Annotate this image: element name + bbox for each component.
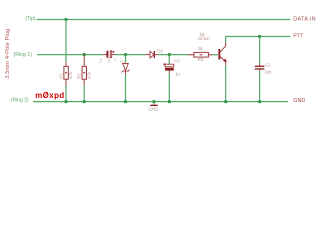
wire TIP drop to R1 — [65, 20, 67, 62]
svg-text:47k: 47k — [86, 71, 91, 79]
transistor Q1 — [198, 32, 226, 65]
wire RING1 segment C2 to D2 — [115, 54, 146, 56]
pin label (Ring 1) — [14, 52, 33, 58]
svg-text:R2: R2 — [77, 73, 82, 79]
svg-text:PTT: PTT — [293, 34, 304, 40]
svg-text:2: 2 — [125, 62, 127, 66]
svg-text:R1: R1 — [58, 73, 63, 79]
svg-text:(Ring 1): (Ring 1) — [14, 52, 33, 58]
svg-text:D2: D2 — [157, 49, 163, 54]
wire junction to zener — [125, 55, 127, 64]
svg-text:(Tip): (Tip) — [25, 16, 35, 22]
svg-text:GND: GND — [149, 107, 158, 112]
diode D2 — [146, 49, 164, 59]
svg-text:1u: 1u — [175, 72, 180, 77]
node rail junction emitter — [224, 100, 227, 103]
wire junction to C3 — [168, 55, 170, 65]
wire R2 to GND rail — [83, 86, 85, 102]
svg-text:3.5mm 4-Pole Plug: 3.5mm 4-Pole Plug — [5, 29, 11, 79]
wire PTT junction to C1 — [259, 37, 261, 64]
node PTT-C1 junction — [258, 35, 261, 38]
ground symbol — [149, 102, 158, 112]
node zener junction — [124, 53, 127, 56]
wire TIP net horizontal — [37, 19, 291, 21]
svg-text:C1: C1 — [265, 62, 271, 67]
svg-text:GND: GND — [293, 98, 305, 104]
svg-text:mØxpd: mØxpd — [35, 91, 64, 100]
node C3 junction — [168, 53, 171, 56]
wire Q1 collector to PTT — [226, 37, 291, 43]
wire R3 to Q1 base — [213, 54, 218, 56]
net label DATA IN — [293, 17, 316, 23]
wire C1 to GND rail — [259, 71, 261, 101]
svg-text:DATA IN: DATA IN — [293, 17, 316, 23]
connector J1 vertical label — [5, 29, 11, 79]
svg-text:C2: C2 — [99, 58, 103, 62]
capacitor C2 — [99, 51, 117, 63]
svg-text:(Ring 2): (Ring 2) — [11, 97, 29, 103]
wire Q1 emitter to GND rail — [225, 65, 227, 102]
node rail junction zener — [124, 100, 127, 103]
svg-text:R3: R3 — [198, 57, 204, 62]
capacitor C1 — [255, 62, 272, 74]
node rail junction C3 — [168, 100, 171, 103]
logo mØxpd — [35, 91, 64, 100]
net label PTT — [293, 34, 304, 40]
resistor R3 — [188, 46, 212, 62]
wire GND rail — [33, 101, 288, 103]
node rail junction C1 — [258, 100, 261, 103]
wire C3 to GND rail — [168, 73, 170, 101]
svg-text:C3: C3 — [174, 58, 180, 63]
resistor R2 — [77, 55, 92, 86]
svg-text:Z1: Z1 — [120, 59, 124, 63]
node RING1-R2 junction — [83, 53, 86, 56]
capacitor C3 — [163, 58, 180, 76]
svg-text:10n: 10n — [264, 70, 272, 75]
pin label (Ring 2) — [11, 97, 29, 103]
node TIP junction — [64, 18, 67, 21]
node rail junction R1 — [64, 100, 67, 103]
wire R1 to GND rail — [65, 86, 67, 102]
svg-text:BC547: BC547 — [198, 36, 211, 41]
svg-text:1k: 1k — [198, 46, 203, 51]
svg-text:47k: 47k — [68, 71, 73, 79]
svg-text:u: u — [115, 58, 117, 62]
node rail junction R2 — [83, 100, 86, 103]
resistor R1 — [58, 62, 73, 86]
pin label (Tip) — [25, 16, 35, 22]
wire RING1 segment D2 to R3 — [158, 54, 188, 56]
diode D1 zener — [120, 59, 130, 74]
node rail junction GND symbol — [152, 100, 155, 103]
svg-text:2u2: 2u2 — [107, 57, 111, 63]
wire zener to GND rail — [125, 75, 127, 102]
net label GND right — [293, 98, 305, 104]
wire RING1 net segment left — [37, 54, 103, 56]
